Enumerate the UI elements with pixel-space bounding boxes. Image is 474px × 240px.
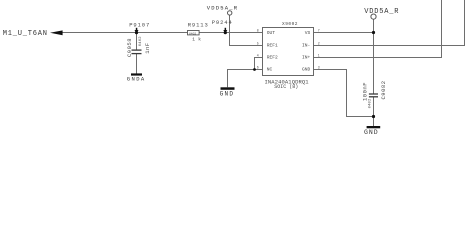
- svg-text:4: 4: [257, 54, 259, 58]
- svg-text:VDD5A_R: VDD5A_R: [364, 8, 399, 16]
- svg-text:R9113: R9113: [188, 22, 209, 29]
- svg-text:P9244: P9244: [212, 19, 233, 26]
- svg-text:C9082: C9082: [380, 80, 387, 99]
- svg-text:0402: 0402: [189, 32, 196, 35]
- svg-text:3: 3: [318, 66, 320, 70]
- svg-text:P9107: P9107: [129, 22, 150, 29]
- svg-text:7: 7: [318, 29, 320, 33]
- svg-text:IN-: IN-: [302, 43, 310, 49]
- svg-text:VS: VS: [305, 30, 311, 36]
- svg-text:C9058: C9058: [126, 38, 133, 57]
- svg-text:0402: 0402: [139, 36, 143, 46]
- svg-text:SOIC (8): SOIC (8): [274, 84, 298, 90]
- svg-text:1 k: 1 k: [192, 37, 201, 43]
- svg-text:GND: GND: [220, 90, 235, 97]
- svg-text:REF1: REF1: [267, 43, 278, 49]
- svg-text:NC: NC: [267, 67, 273, 73]
- svg-text:X9002: X9002: [282, 21, 298, 27]
- svg-text:GND: GND: [364, 129, 379, 136]
- svg-text:M1_U_T6AN: M1_U_T6AN: [3, 30, 48, 38]
- svg-text:6: 6: [257, 66, 259, 70]
- svg-text:100nF: 100nF: [361, 82, 368, 101]
- svg-text:OUT: OUT: [267, 30, 276, 36]
- svg-text:1: 1: [318, 54, 320, 58]
- svg-text:GNDA: GNDA: [127, 76, 146, 83]
- svg-text:1nF: 1nF: [144, 42, 151, 53]
- svg-text:VDD5A_R: VDD5A_R: [207, 4, 239, 11]
- svg-text:GND: GND: [302, 67, 311, 73]
- svg-text:0402: 0402: [368, 98, 372, 108]
- svg-text:REF2: REF2: [267, 55, 278, 61]
- svg-text:8: 8: [257, 29, 259, 33]
- svg-text:5: 5: [257, 42, 259, 46]
- svg-text:2: 2: [318, 42, 320, 46]
- svg-text:IN+: IN+: [302, 55, 311, 61]
